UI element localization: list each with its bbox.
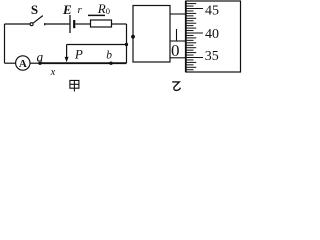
junction node on right vertical xyxy=(125,43,128,46)
underline below R0 xyxy=(88,14,105,16)
node a dot xyxy=(38,62,41,65)
ammeter A circle xyxy=(16,56,30,70)
wire left vertical xyxy=(4,24,6,63)
switch S lever xyxy=(33,16,43,24)
wire battery to resistor xyxy=(75,23,90,25)
wire switch to battery xyxy=(45,23,70,25)
label yi (CJK drawn) xyxy=(172,82,180,91)
svg-text:40: 40 xyxy=(205,27,219,42)
resistance wire a to right corner xyxy=(40,62,127,64)
battery E long plate xyxy=(69,15,71,33)
svg-text:P: P xyxy=(74,47,83,62)
wire ammeter to node a xyxy=(30,62,40,64)
svg-text:a: a xyxy=(37,50,44,65)
wire top-left from corner to switch pivot xyxy=(5,23,31,25)
svg-text:x: x xyxy=(50,67,56,78)
svg-text:b: b xyxy=(106,50,112,62)
ruler frame xyxy=(186,1,241,72)
block of figure yi xyxy=(133,6,170,63)
ruler left edge thick xyxy=(185,1,187,72)
svg-text:0: 0 xyxy=(171,41,180,60)
svg-text:A: A xyxy=(19,58,27,70)
switch S fixed contact tick xyxy=(44,23,46,25)
wire resistor to right corner xyxy=(112,23,127,25)
battery E short plate xyxy=(73,20,75,28)
connector block to ruler top xyxy=(170,13,186,15)
svg-text:E: E xyxy=(62,2,72,17)
wire slider branch horizontal xyxy=(67,44,127,46)
svg-text:r: r xyxy=(78,4,83,16)
pointer crossbar upper xyxy=(170,40,186,42)
switch S pivot circle xyxy=(30,23,33,26)
resistor R0 box xyxy=(91,20,112,27)
ruler ticks xyxy=(186,4,203,70)
svg-text:45: 45 xyxy=(205,3,219,18)
svg-text:35: 35 xyxy=(205,49,219,64)
label jia (CJK drawn) xyxy=(70,80,79,91)
node b dot xyxy=(109,62,112,65)
pointer stem xyxy=(176,29,178,41)
slider P stem xyxy=(66,45,68,58)
terminal dot on block xyxy=(131,35,135,39)
svg-text:S: S xyxy=(31,2,38,17)
svg-text:R0: R0 xyxy=(97,1,110,16)
slider P arrowhead xyxy=(65,57,69,62)
wire bottom from left corner to ammeter xyxy=(5,62,16,64)
wire right vertical xyxy=(126,24,128,63)
pointer crossbar lower xyxy=(170,57,186,59)
